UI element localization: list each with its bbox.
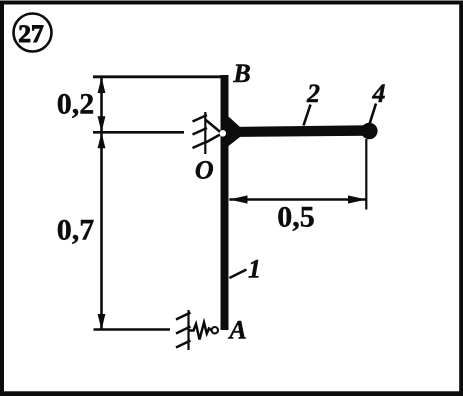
O support hatch 3 <box>193 142 208 149</box>
O support hatch 1 <box>193 115 208 122</box>
A support hatch 3 <box>176 341 191 348</box>
arrowhead left of 0,5 <box>229 195 247 203</box>
svg-text:2: 2 <box>306 79 320 108</box>
rod 2 (horizontal rod) <box>228 125 368 137</box>
svg-text:4: 4 <box>372 79 386 108</box>
label 2 <box>306 79 320 108</box>
label O <box>195 156 214 185</box>
dimension label 0,5 <box>277 201 315 234</box>
svg-text:27: 27 <box>18 21 44 48</box>
O support wall line <box>204 112 206 154</box>
arrowhead up below O level <box>98 132 106 148</box>
svg-text:1: 1 <box>248 255 261 284</box>
A support wall line <box>187 310 189 350</box>
extension line at B level <box>93 75 221 78</box>
A support spring zigzag <box>190 323 212 340</box>
arrowhead down at O level <box>98 116 106 132</box>
dimension line 0,5 <box>229 198 366 200</box>
svg-text:O: O <box>195 156 214 185</box>
extension line at A level <box>94 328 171 331</box>
O support hatch 2 <box>193 128 208 135</box>
label A <box>227 316 246 345</box>
svg-text:A: A <box>227 316 246 345</box>
svg-text:0,7: 0,7 <box>57 214 95 247</box>
arrowhead down at A level <box>98 314 106 330</box>
svg-text:B: B <box>232 59 250 88</box>
ball 4 <box>361 123 378 140</box>
label 1 <box>248 255 261 284</box>
problem number circle 27 <box>14 14 52 52</box>
junction flare at O <box>229 117 241 147</box>
rod 1 (vertical rod A-B) <box>221 75 229 330</box>
arrowhead up at B level <box>98 77 106 93</box>
pivot pin at O <box>220 130 227 137</box>
dimension label 0,2 <box>57 88 95 121</box>
extension line at O level <box>93 131 184 134</box>
svg-text:0,5: 0,5 <box>277 201 315 234</box>
label B <box>232 59 250 88</box>
bottom frame strip <box>0 391 463 396</box>
svg-text:0,2: 0,2 <box>57 88 95 121</box>
extension line from ball 4 <box>365 139 367 210</box>
leader line for label 1 <box>229 270 246 279</box>
A support hatch 1 <box>176 313 191 320</box>
O support bracket bottom edge <box>206 134 221 143</box>
leader line for label 2 <box>304 105 311 126</box>
label 4 <box>372 79 386 108</box>
A support hatch 2 <box>176 327 191 334</box>
leader line for label 4 <box>370 104 377 125</box>
O support bracket top edge <box>206 120 221 133</box>
arrowhead right of 0,5 <box>348 195 366 203</box>
dimension label 0,7 <box>57 214 95 247</box>
vertical dimension line <box>100 77 103 330</box>
pin circle at A <box>212 327 218 333</box>
